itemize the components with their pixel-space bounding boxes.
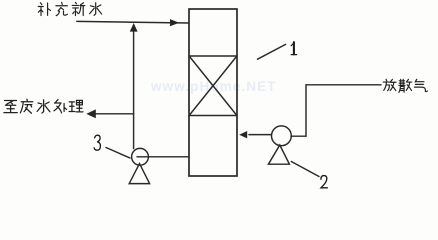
wire: pump P3 discharge to tower: [137, 156, 189, 158]
pump P3 body: [132, 148, 149, 165]
leader line to label 3: [106, 148, 130, 159]
char 水: [37, 100, 50, 113]
tower T1 shell: [189, 9, 237, 176]
arrowhead: fresh water into tower: [170, 19, 179, 26]
text 放散气 (vent gas): [383, 79, 427, 92]
leader line to label 1: [258, 44, 286, 59]
tower packing top divider: [189, 55, 237, 57]
leader line to label 2: [291, 162, 319, 177]
packing X diagonal 1: [190, 57, 237, 116]
arrowhead: riser up into supply line: [130, 23, 138, 32]
char 新: [72, 2, 85, 15]
pump P2 base triangle: [268, 145, 289, 164]
char 补: [38, 3, 50, 16]
wire: pump P2 discharge to tower: [249, 134, 272, 136]
arrowhead: to waste water treatment: [86, 109, 96, 118]
arrowhead: gas into tower: [239, 131, 247, 138]
char 充: [56, 2, 68, 15]
label 2: [321, 176, 328, 188]
char 至: [4, 101, 17, 113]
char 废: [20, 99, 32, 113]
pump P3 base triangle: [129, 164, 149, 184]
wire: vent gas header: [306, 84, 381, 86]
text 至废水处理 (to waste water treatment): [4, 99, 83, 113]
char 水: [90, 3, 102, 16]
char 气: [414, 79, 427, 91]
char 理: [69, 100, 83, 112]
pump P2 body: [272, 126, 292, 146]
char 散: [399, 79, 412, 92]
label 1: [291, 42, 297, 54]
tower packing bottom divider: [189, 115, 237, 117]
wire: fresh water supply line: [77, 21, 189, 23]
wire: recirculation riser: [133, 30, 135, 149]
wire: waste water branch: [95, 113, 134, 115]
wire: vent gas downcomer: [305, 85, 307, 136]
packing X diagonal 2: [190, 57, 237, 116]
char 处: [54, 100, 67, 113]
text 补充新水 (fresh make-up water): [38, 2, 101, 15]
wire: downcomer to pump P2: [291, 135, 306, 137]
char 放: [383, 79, 396, 90]
label 3: [94, 135, 100, 150]
